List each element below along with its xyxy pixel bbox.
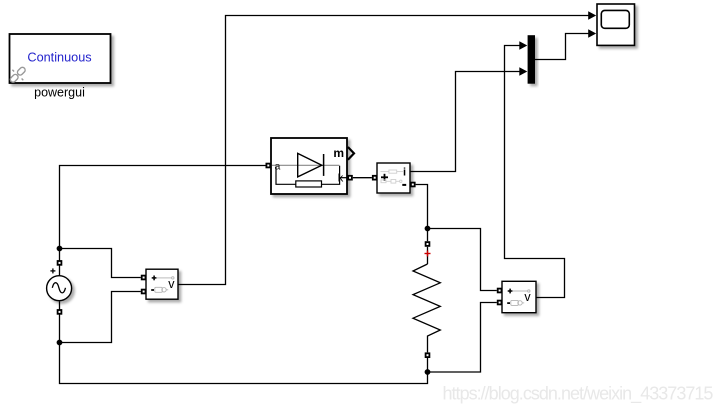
svg-text:k: k	[338, 172, 344, 184]
svg-text:a: a	[275, 160, 281, 172]
svg-text:https://blog.csdn.net/weixin_4: https://blog.csdn.net/weixin_43373715	[443, 384, 714, 405]
svg-text:powergui: powergui	[34, 86, 85, 100]
svg-text:v: v	[524, 290, 531, 304]
svg-text:v: v	[168, 277, 175, 291]
svg-text:i: i	[403, 167, 406, 179]
svg-text:Continuous: Continuous	[27, 50, 91, 64]
svg-text:m: m	[333, 146, 344, 160]
